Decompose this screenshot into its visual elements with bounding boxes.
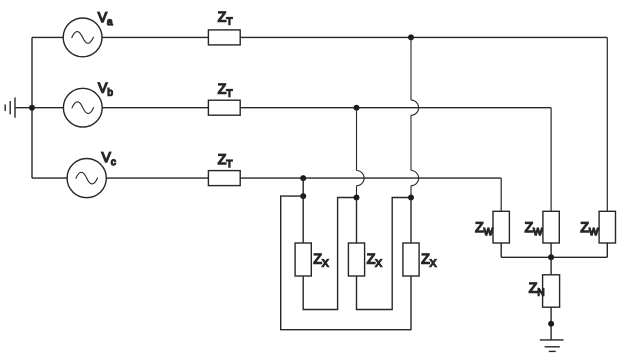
wire ground to neutral node xyxy=(15,107,32,109)
wire phase a to ZW3 xyxy=(606,37,608,211)
source Vc xyxy=(67,159,106,198)
svg-text:ZX: ZX xyxy=(421,251,437,270)
wire source Va to ZT xyxy=(102,36,208,38)
source Vb xyxy=(63,88,102,127)
resistor ZW2 xyxy=(543,211,559,243)
node phase b tap xyxy=(354,105,360,111)
svg-text:ZX: ZX xyxy=(367,251,383,270)
wire star point to ZN xyxy=(550,257,552,275)
node delta corner a xyxy=(408,195,414,201)
resistor ZW1 xyxy=(493,211,509,243)
svg-text:ZT: ZT xyxy=(218,8,233,27)
node delta corner c xyxy=(300,193,306,199)
node phase c tap xyxy=(300,175,306,181)
source Va xyxy=(63,18,102,57)
ground (load neutral) xyxy=(540,340,564,352)
wire ZW1 bottom to load bus xyxy=(500,243,502,257)
wire ZW2 bottom to load bus xyxy=(550,243,552,257)
wire phase b: trunk to source Vb xyxy=(32,107,63,109)
wire phase c drop to delta node xyxy=(302,178,304,196)
wire ZW3 bottom to load bus xyxy=(606,243,608,257)
wire phase a: trunk to source Va xyxy=(32,36,63,38)
wire ZX2 bottom to delta corner a xyxy=(357,198,412,310)
wire phase c: trunk to source Vc xyxy=(32,177,67,179)
svg-text:ZW: ZW xyxy=(580,219,599,238)
wire neutral trunk xyxy=(31,37,33,178)
wire ZX3 bottom back to delta corner c xyxy=(281,196,411,330)
wire phase a drop with hops over phases b and c xyxy=(411,37,419,197)
node delta corner b xyxy=(354,195,360,201)
wire phase b to ZW2 xyxy=(550,108,552,212)
svg-text:Vc: Vc xyxy=(102,149,116,168)
wire phase b drop with hop over phase c xyxy=(357,108,365,198)
svg-text:ZX: ZX xyxy=(313,251,329,270)
wire delta corner c to ZX1 xyxy=(302,196,304,243)
resistor ZT (phase c) xyxy=(208,171,240,186)
wire source Vb to ZT xyxy=(102,107,208,109)
wire delta corner b to ZX2 xyxy=(356,198,358,244)
resistor ZN xyxy=(543,275,560,307)
wire ZN bottom to ground xyxy=(550,307,552,340)
resistor ZX3 xyxy=(403,243,419,276)
resistor ZX1 xyxy=(295,243,311,276)
wire load star bus xyxy=(501,256,607,258)
node neutral junction xyxy=(29,105,35,111)
wire source Vc to ZT xyxy=(106,177,208,179)
ground (source neutral) xyxy=(5,98,15,118)
wire phase a bus xyxy=(240,36,607,38)
wire phase b bus xyxy=(240,107,551,109)
wire delta corner a to ZX3 xyxy=(410,198,412,244)
resistor ZW3 xyxy=(599,211,615,243)
node ground junction xyxy=(548,321,554,327)
resistor ZT (phase a) xyxy=(208,30,240,45)
node phase a tap xyxy=(408,34,414,40)
svg-text:ZT: ZT xyxy=(218,81,233,100)
wire phase c to ZW1 xyxy=(500,178,502,211)
resistor ZT (phase b) xyxy=(208,100,240,115)
svg-text:ZW: ZW xyxy=(475,219,494,238)
svg-text:Vb: Vb xyxy=(98,79,113,98)
svg-text:ZW: ZW xyxy=(525,219,544,238)
resistor ZX2 xyxy=(348,243,364,276)
svg-text:Va: Va xyxy=(98,9,113,28)
wire ZX1 bottom to delta corner b xyxy=(303,198,356,310)
wire phase c bus xyxy=(240,177,501,179)
svg-text:ZT: ZT xyxy=(218,151,233,170)
node star point xyxy=(548,254,554,260)
